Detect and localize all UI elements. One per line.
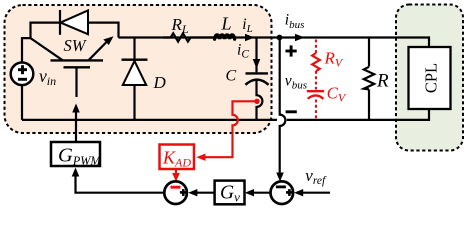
diode D — [122, 38, 148, 120]
svg-text:L: L — [221, 14, 232, 34]
gate drive arrow from G_PWM — [75, 111, 77, 142]
CPL box — [409, 47, 451, 109]
capacitor C_V (red) — [307, 91, 324, 99]
svg-text:CPL: CPL — [422, 63, 441, 93]
label - (bus) — [286, 110, 297, 113]
red sense wire from C to K_AD — [205, 101, 256, 157]
G_PWM box — [51, 142, 100, 166]
current arrow i_C — [253, 59, 261, 69]
svg-text:C: C — [226, 67, 237, 84]
current arrow i_bus — [295, 34, 305, 42]
bottom rail — [22, 109, 429, 120]
converter dashed box — [5, 5, 272, 133]
top rail — [119, 38, 430, 48]
wire: vin top to SW junction — [22, 38, 31, 62]
arrow G_v to S1 — [197, 192, 215, 194]
v_ref arrow into S2 — [303, 192, 330, 194]
G_v box — [215, 181, 245, 205]
svg-text:R: R — [376, 71, 389, 92]
arrowhead into S2 — [276, 173, 284, 182]
CPL dashed box — [396, 5, 463, 151]
resistor R_L — [163, 33, 216, 41]
svg-text:D: D — [153, 73, 167, 92]
source v_in — [11, 63, 34, 86]
summer S1 — [164, 181, 187, 204]
summer S2 — [271, 181, 294, 204]
red arrowhead into K_AD — [196, 154, 205, 161]
resistor R_V (red) — [312, 53, 320, 71]
junction dot on bus — [277, 35, 283, 41]
red dashed bottom — [315, 100, 317, 120]
capacitor C plates — [245, 73, 268, 84]
red arrow K_AD to S1 — [175, 169, 177, 174]
bus vertical line with hop over bottom rail, down to summer S2 — [280, 38, 286, 174]
red dashed mid — [315, 71, 317, 90]
K_AD box (red) — [160, 145, 195, 170]
wire S2 to G_v — [254, 192, 271, 194]
resistor R — [364, 38, 374, 120]
label + (bus) — [286, 45, 297, 56]
current arrow i_L — [245, 34, 255, 42]
svg-text:SW: SW — [64, 36, 87, 55]
wire: antiparallel diode (right) down to rail — [88, 23, 119, 38]
wire S1 to G_PWM — [76, 176, 165, 193]
inductor L — [215, 35, 235, 39]
virtual branch: red dashed top — [315, 40, 317, 54]
capacitor C branch upper — [255, 38, 257, 73]
wire: SW to antiparallel diode (left) — [31, 23, 60, 38]
red tap dot — [254, 99, 259, 104]
diode antiparallel (points left) — [60, 10, 88, 35]
transistor SW — [31, 36, 114, 97]
wire: vin bottom — [21, 85, 23, 120]
capacitor C lower lead with hop over red tap — [257, 80, 263, 120]
